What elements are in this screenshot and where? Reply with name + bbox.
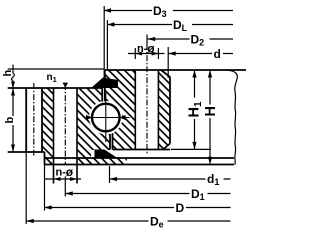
svg-text:ø: ø bbox=[147, 42, 155, 56]
svg-text:b: b bbox=[4, 117, 16, 124]
svg-text:d: d bbox=[214, 47, 221, 61]
svg-text:n-: n- bbox=[56, 167, 67, 179]
svg-text:H: H bbox=[203, 106, 219, 116]
svg-text:D: D bbox=[176, 201, 185, 215]
svg-text:h: h bbox=[2, 70, 14, 77]
svg-text:ø: ø bbox=[66, 165, 74, 179]
svg-text:n-: n- bbox=[137, 43, 148, 55]
